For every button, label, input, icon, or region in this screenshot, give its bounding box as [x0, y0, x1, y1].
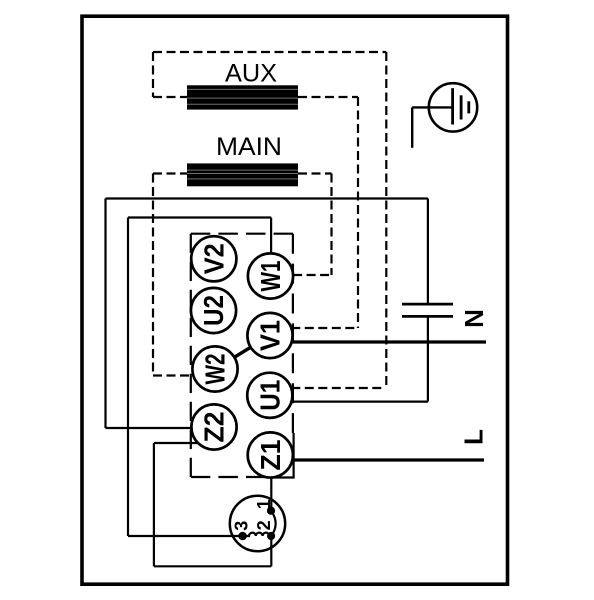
terminal W2	[192, 346, 237, 391]
wire: AUX right to V1 riser	[357, 97, 359, 328]
wire: V1 dashed lead	[291, 327, 358, 329]
terminal block outline (dashed)	[191, 234, 293, 477]
wire: W1 horizontal	[128, 216, 271, 218]
wire: protector 2 riser	[270, 536, 272, 566]
terminal V1	[247, 313, 292, 358]
svg-text:U1: U1	[254, 380, 285, 411]
thermal protector	[230, 496, 285, 551]
wire: MAIN right lead	[298, 172, 332, 174]
terminal U1	[247, 373, 292, 418]
svg-text:L: L	[459, 429, 489, 445]
protector dot 3	[238, 532, 247, 541]
wire: Z2 to protector drop	[153, 443, 155, 566]
svg-text:V2: V2	[198, 243, 229, 274]
svg-text:V1: V1	[255, 320, 286, 351]
MAIN winding	[187, 163, 298, 186]
svg-text:U2: U2	[198, 295, 229, 326]
wire: AUX loop top dashed	[153, 52, 386, 388]
wire: AUX top to U1 riser	[385, 52, 387, 388]
protector contact arc 1-2	[271, 511, 275, 536]
AUX winding	[187, 85, 298, 109]
svg-text:W1: W1	[255, 261, 286, 292]
capacitor C	[402, 304, 453, 316]
terminal U2	[191, 288, 236, 333]
terminal block corner segment	[274, 433, 294, 478]
svg-text:AUX: AUX	[225, 60, 277, 88]
svg-text:Z1: Z1	[255, 440, 286, 471]
svg-text:Z2: Z2	[199, 412, 230, 443]
terminal Z2	[191, 404, 236, 449]
jumper W2-V1	[220, 339, 265, 367]
wire: AUX left lead	[153, 96, 187, 98]
wire: MAIN left lead	[153, 172, 187, 174]
wire: U1 solid lead	[292, 401, 428, 403]
line L	[292, 458, 484, 461]
terminal Z1	[248, 432, 293, 477]
terminal V2	[191, 236, 236, 281]
protector heater coil	[244, 533, 271, 536]
wire: protector 3 lead	[128, 535, 244, 537]
wire: W1 to protector 3 drop	[127, 218, 129, 537]
terminal W1	[248, 253, 293, 298]
wire: W2 dashed lead	[153, 374, 193, 376]
svg-text:W2: W2	[200, 354, 231, 385]
ground symbol	[412, 83, 477, 148]
wire: W1 top lead	[270, 218, 272, 254]
svg-text:2: 2	[254, 520, 274, 530]
wire: Z2 upper lead	[106, 427, 192, 429]
wire: MAIN right riser to W1	[330, 174, 332, 276]
svg-text:MAIN: MAIN	[216, 133, 282, 161]
wire: U1 dashed lead	[291, 387, 385, 389]
wire: capacitor bottom drop	[427, 316, 429, 401]
protector dot 1	[267, 507, 275, 515]
svg-text:3: 3	[232, 521, 252, 531]
wire: AUX right lead	[298, 96, 358, 98]
wire: bottom horizontal to protector 2	[154, 565, 271, 567]
wire: top horizontal Z2-capacitor	[106, 197, 428, 199]
ground lead	[411, 107, 413, 147]
wire: W1 dashed lead	[293, 274, 331, 276]
svg-text:N: N	[459, 309, 489, 328]
svg-text:1: 1	[254, 499, 274, 509]
enclosure frame	[82, 16, 508, 584]
wire: Z1 to protector 1	[270, 478, 272, 512]
wire: MAIN left riser to W2	[152, 174, 154, 376]
solid wires	[106, 199, 428, 567]
wire: Z2 lower lead	[154, 442, 198, 444]
protector dot 2	[267, 532, 275, 540]
wire: AUX left riser	[152, 52, 154, 97]
wire: Z2 to capacitor riser	[104, 199, 106, 429]
wire: capacitor top drop	[427, 199, 429, 305]
line N	[292, 340, 487, 343]
